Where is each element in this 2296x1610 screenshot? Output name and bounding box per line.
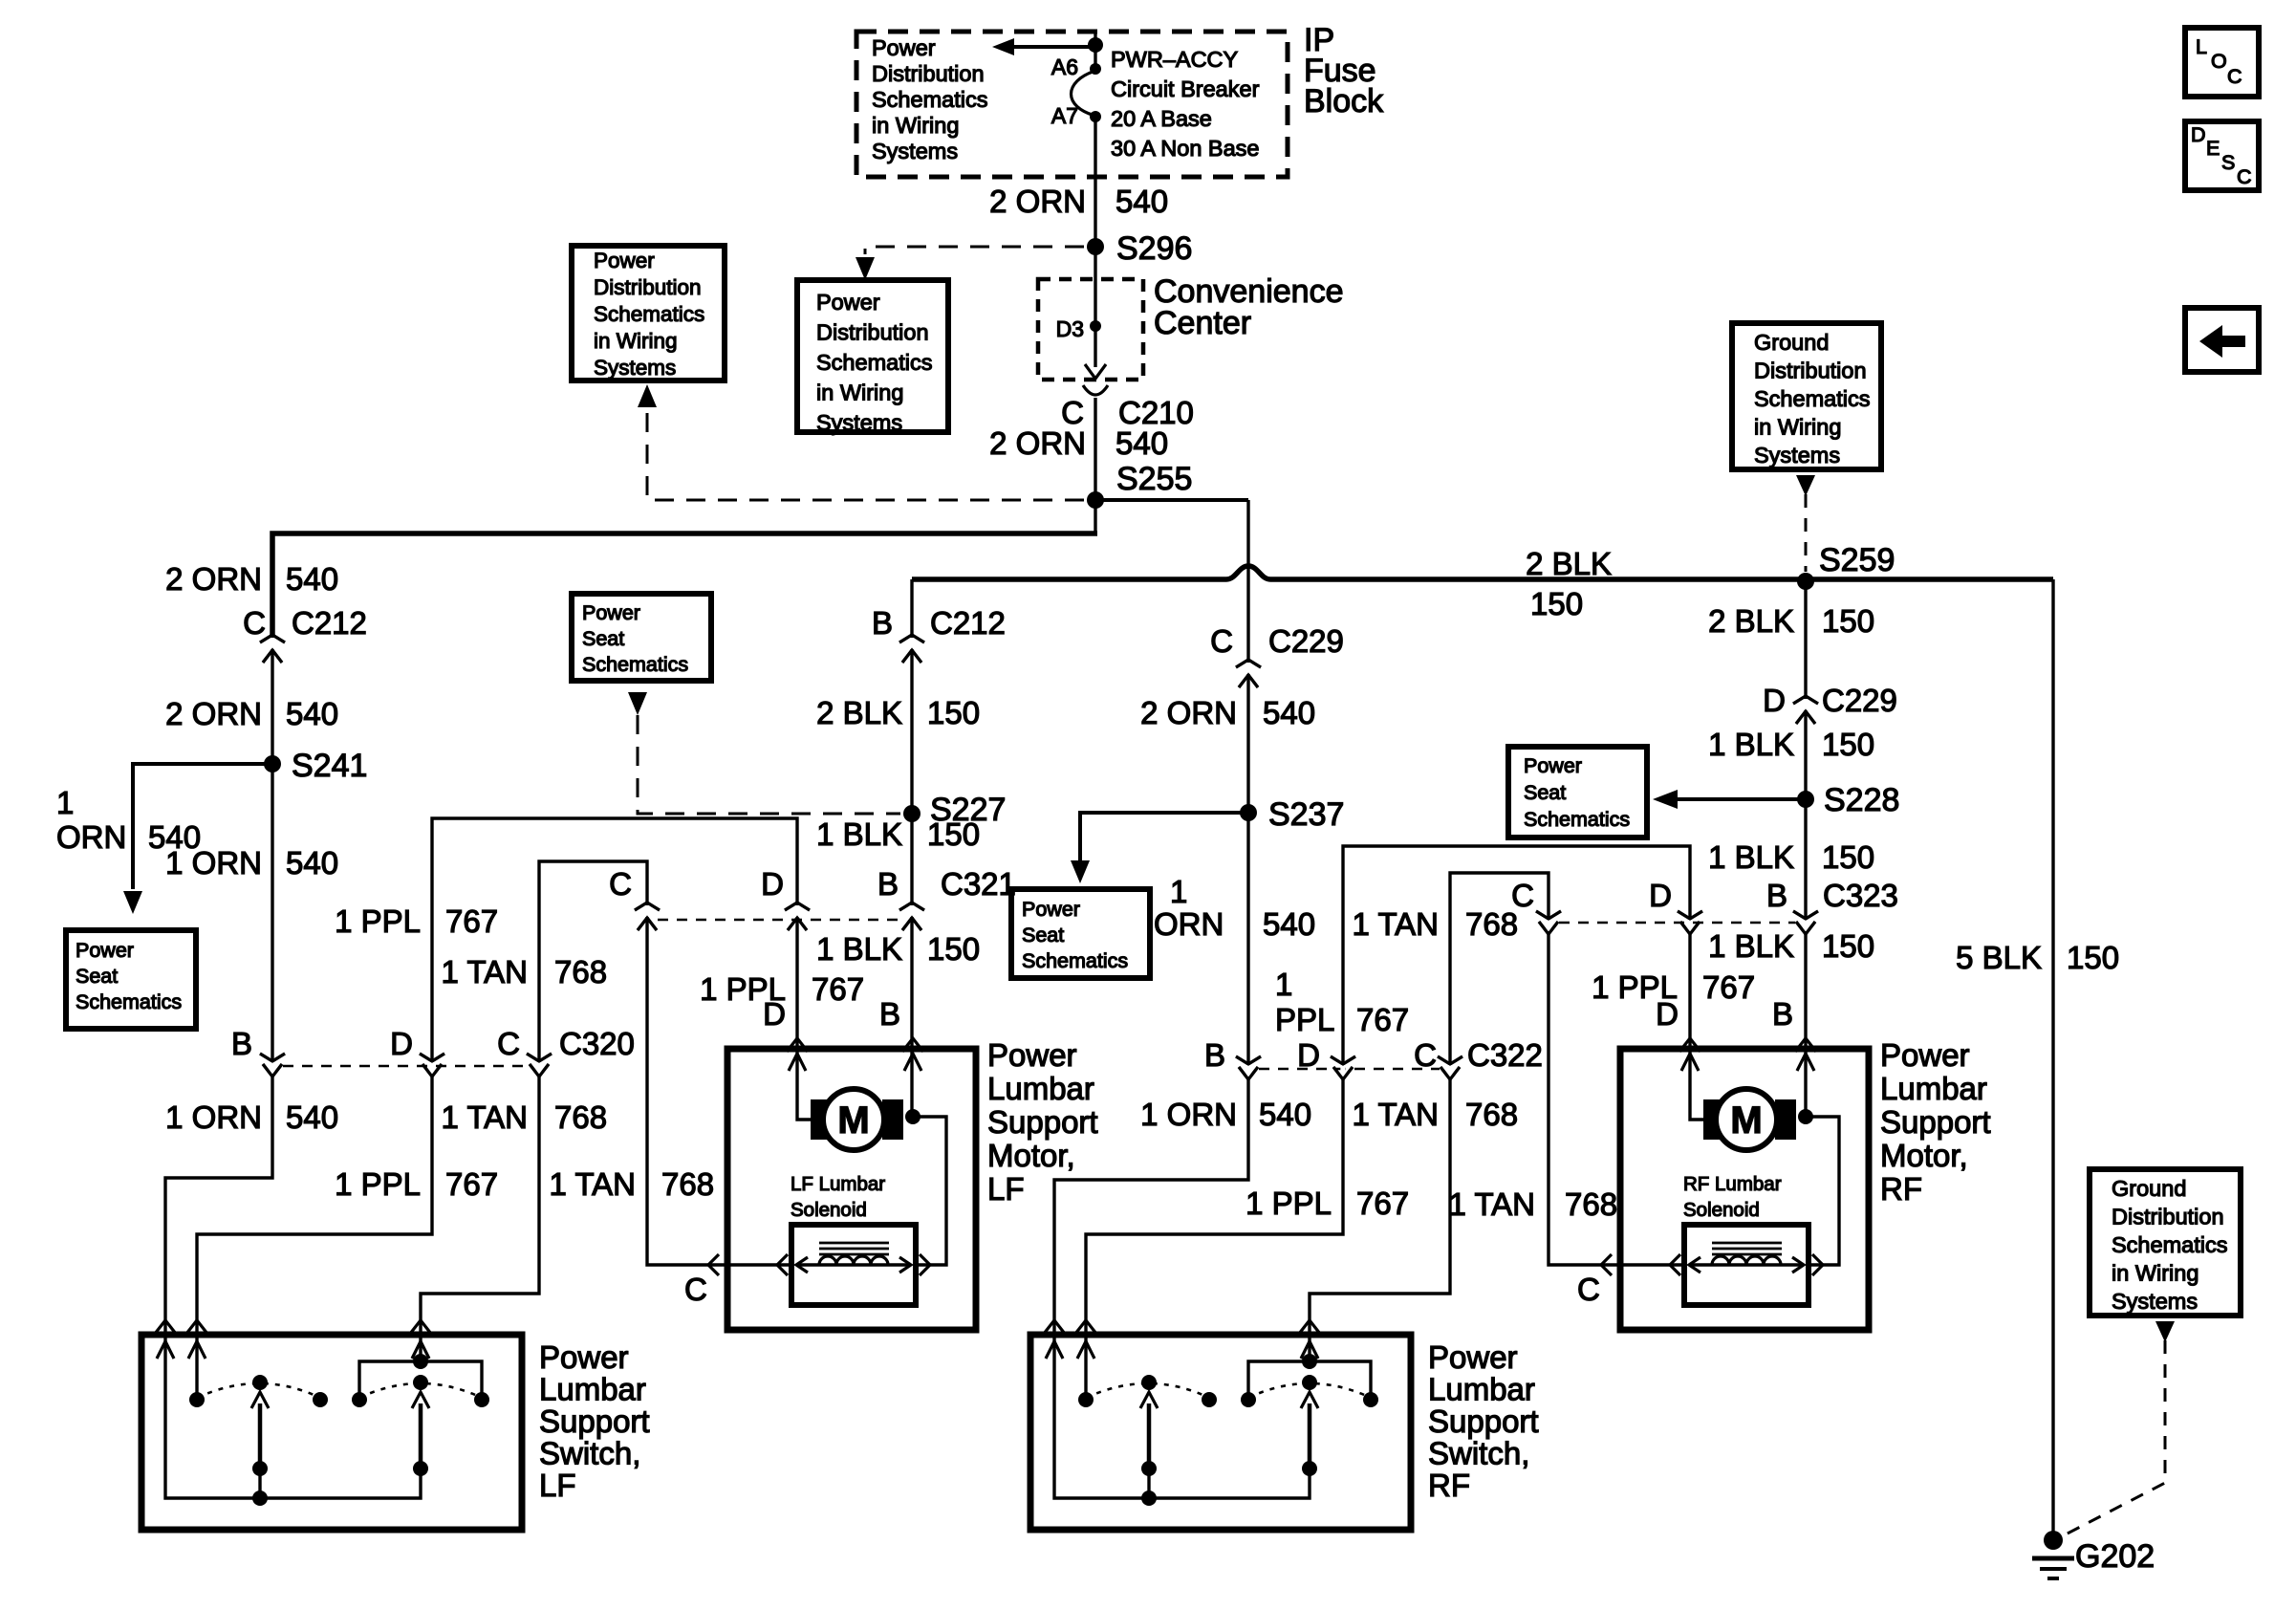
ref box: Power Seat Schematics (left) xyxy=(66,930,196,1029)
svg-text:Schematics: Schematics xyxy=(1754,386,1870,411)
svg-text:767: 767 xyxy=(445,1166,498,1202)
svg-text:767: 767 xyxy=(445,903,498,939)
ref box: Power Seat Schematics (RF) xyxy=(1508,747,1647,838)
LF switch left actuator arrow xyxy=(258,1403,263,1469)
wire: C320-C to LF switch pin xyxy=(421,1077,539,1333)
arrow down into power seat schematics box (left) xyxy=(123,891,142,914)
svg-text:S259: S259 xyxy=(1819,542,1895,578)
arrow into power distribution box (mid) xyxy=(856,257,875,280)
svg-text:Lumbar: Lumbar xyxy=(539,1372,646,1407)
svg-text:150: 150 xyxy=(1822,928,1874,964)
svg-text:Motor,: Motor, xyxy=(1880,1138,1968,1173)
svg-text:Circuit Breaker: Circuit Breaker xyxy=(1111,76,1260,101)
svg-text:1 ORN: 1 ORN xyxy=(165,1099,262,1135)
svg-text:150: 150 xyxy=(927,816,980,852)
wire: battery feed into breaker xyxy=(1094,32,1096,70)
svg-text:Schematics: Schematics xyxy=(2112,1232,2227,1257)
connector C212 pin C xyxy=(270,638,274,649)
svg-text:30 A Non Base: 30 A Non Base xyxy=(1111,136,1259,161)
svg-text:Center: Center xyxy=(1154,305,1251,341)
wire: RF motor B junction to solenoid xyxy=(1806,1117,1839,1265)
svg-text:Schematics: Schematics xyxy=(76,990,182,1013)
svg-text:Seat: Seat xyxy=(582,627,624,650)
svg-text:Power: Power xyxy=(1428,1339,1518,1375)
connector C322 pin D xyxy=(1340,1065,1345,1077)
svg-text:M: M xyxy=(1730,1099,1762,1142)
svg-text:RF: RF xyxy=(1880,1171,1922,1207)
arrow down from power seat schematics box xyxy=(628,692,647,715)
svg-text:C: C xyxy=(1577,1272,1600,1307)
wire: C320-B to LF switch pin xyxy=(165,1077,272,1333)
ref box: Power Distribution Schematics in Wiring Systems (mid) xyxy=(797,280,948,432)
svg-text:Lumbar: Lumbar xyxy=(1428,1372,1535,1407)
dashed ref: S255 to power distribution box (left) xyxy=(647,413,1084,500)
svg-text:Lumbar: Lumbar xyxy=(987,1071,1094,1106)
wire: ORN drop to C229 xyxy=(1246,500,1249,1078)
wire: S255 down to main ORN bus xyxy=(1094,500,1096,533)
svg-text:C: C xyxy=(2237,165,2252,188)
svg-text:Power: Power xyxy=(1022,898,1080,921)
svg-text:Power: Power xyxy=(582,601,640,624)
pin A7 xyxy=(1090,111,1101,122)
svg-text:C: C xyxy=(1414,1037,1437,1073)
svg-text:1 PPL: 1 PPL xyxy=(335,903,421,939)
svg-text:Schematics: Schematics xyxy=(816,350,932,375)
connector C212 pin B xyxy=(909,638,914,649)
svg-text:540: 540 xyxy=(1263,906,1315,942)
connector C323 pin B xyxy=(1803,920,1808,931)
RF switch right wiper dashed arc xyxy=(1248,1383,1371,1398)
svg-text:L: L xyxy=(2196,35,2207,58)
svg-text:Schematics: Schematics xyxy=(582,653,688,676)
svg-text:Schematics: Schematics xyxy=(594,302,704,326)
svg-text:150: 150 xyxy=(1822,603,1874,639)
svg-text:LF Lumbar: LF Lumbar xyxy=(791,1173,885,1195)
node S241 xyxy=(264,755,281,772)
svg-text:768: 768 xyxy=(1565,1186,1617,1222)
svg-text:in Wiring: in Wiring xyxy=(2112,1261,2199,1286)
svg-text:5 BLK: 5 BLK xyxy=(1956,940,2042,975)
connector C320 pin B xyxy=(270,1062,274,1074)
svg-text:1 BLK: 1 BLK xyxy=(816,931,902,967)
svg-text:S237: S237 xyxy=(1268,796,1344,833)
convenience center dashed outline xyxy=(1038,279,1143,380)
svg-text:RF Lumbar: RF Lumbar xyxy=(1683,1173,1782,1195)
wire: S237 branch to power seat schematics xyxy=(1080,813,1248,860)
RF switch right actuator arrow xyxy=(1308,1403,1312,1469)
svg-text:1 BLK: 1 BLK xyxy=(816,816,902,852)
RF motor M left brush xyxy=(1703,1099,1724,1140)
svg-text:Seat: Seat xyxy=(76,965,118,988)
wire: RF switch D leg xyxy=(1084,1335,1087,1400)
node S237 xyxy=(1240,804,1257,821)
svg-text:2 ORN: 2 ORN xyxy=(165,561,262,597)
svg-text:in Wiring: in Wiring xyxy=(594,329,678,353)
connector C323 pin C xyxy=(1546,920,1550,931)
svg-text:Solenoid: Solenoid xyxy=(1683,1199,1760,1221)
svg-text:C: C xyxy=(243,605,266,641)
svg-text:C: C xyxy=(1511,878,1534,913)
svg-text:Distribution: Distribution xyxy=(2112,1205,2224,1229)
svg-text:Motor,: Motor, xyxy=(987,1138,1075,1173)
connector: RF switch pin C entry xyxy=(1299,1320,1320,1334)
svg-text:S: S xyxy=(2221,151,2235,174)
svg-text:D: D xyxy=(761,866,784,902)
svg-text:Seat: Seat xyxy=(1524,781,1566,804)
arrow down from ground distribution box (bottom) xyxy=(2155,1321,2175,1342)
LF switch right wiper dashed arc xyxy=(359,1383,482,1398)
connector C321 pin D xyxy=(794,905,799,917)
svg-text:D: D xyxy=(1656,996,1679,1032)
connector C320 dashed row xyxy=(283,1065,530,1068)
ref box: Power Seat Schematics (S237) xyxy=(1011,889,1150,978)
ref box: Ground Distribution Schematics in Wiring Systems (top) xyxy=(1732,323,1881,469)
wire: RF 1 TAN 768 riser xyxy=(1450,873,1684,1265)
svg-text:D: D xyxy=(390,1026,413,1061)
wire: LF 1 PPL 767 riser xyxy=(432,818,797,1061)
svg-text:540: 540 xyxy=(286,561,338,597)
svg-text:2 ORN: 2 ORN xyxy=(989,425,1086,461)
wire: S241 branch to power seat schematics xyxy=(133,764,272,889)
svg-text:D: D xyxy=(1297,1037,1320,1073)
svg-text:1 BLK: 1 BLK xyxy=(1708,727,1794,762)
arrow: wire to power distribution schematics xyxy=(1011,45,1095,49)
svg-text:E: E xyxy=(2206,137,2220,160)
svg-text:B: B xyxy=(879,996,900,1032)
svg-text:767: 767 xyxy=(1356,1186,1409,1221)
wire: C320-D to LF switch pin xyxy=(197,1077,432,1333)
RF solenoid core plates xyxy=(1712,1243,1782,1254)
svg-text:S228: S228 xyxy=(1824,782,1899,818)
node: motor B junction xyxy=(905,1109,921,1124)
svg-text:767: 767 xyxy=(1356,1002,1409,1037)
wire: LF switch D leg xyxy=(195,1335,198,1400)
svg-text:C: C xyxy=(684,1272,707,1307)
svg-text:Block: Block xyxy=(1304,83,1384,120)
dashed ref: ground distribution to S259 xyxy=(1805,494,1808,572)
svg-text:Schematics: Schematics xyxy=(1524,808,1630,831)
svg-text:Systems: Systems xyxy=(816,410,902,435)
svg-text:150: 150 xyxy=(927,695,980,730)
arrow down from ground distribution box xyxy=(1796,475,1815,496)
wire: C322-C to RF switch pin xyxy=(1310,1079,1450,1333)
svg-text:C321: C321 xyxy=(941,866,1016,902)
svg-text:C: C xyxy=(2227,65,2242,88)
LF switch right actuator arrow xyxy=(419,1403,423,1469)
RF solenoid coil xyxy=(1712,1256,1781,1265)
IP fuse block dashed outline xyxy=(856,32,1288,177)
svg-text:C320: C320 xyxy=(559,1026,635,1061)
svg-text:1: 1 xyxy=(1170,874,1187,909)
svg-text:767: 767 xyxy=(812,971,864,1007)
icon box LOC xyxy=(2185,28,2259,97)
svg-text:Systems: Systems xyxy=(1754,443,1840,468)
svg-text:1 TAN: 1 TAN xyxy=(550,1166,636,1202)
connector: RF switch pin B entry xyxy=(1044,1320,1065,1334)
svg-text:C: C xyxy=(609,866,632,902)
ref box: Power Seat Schematics (S227) xyxy=(572,594,711,681)
svg-text:RF: RF xyxy=(1428,1468,1470,1503)
svg-text:Distribution: Distribution xyxy=(1754,359,1867,383)
pin D3 xyxy=(1090,320,1101,332)
svg-text:2 ORN: 2 ORN xyxy=(1140,695,1237,730)
ref box: Power Distribution Schematics in Wiring Systems (left) xyxy=(572,246,725,381)
svg-text:C: C xyxy=(1210,623,1233,659)
connector C321 pin B xyxy=(909,905,914,917)
motor M left brush xyxy=(811,1099,832,1140)
svg-text:A7: A7 xyxy=(1051,103,1078,128)
svg-text:Systems: Systems xyxy=(872,139,958,163)
svg-text:S241: S241 xyxy=(292,748,367,784)
svg-text:1 ORN: 1 ORN xyxy=(165,845,262,881)
connector C229 pin C xyxy=(1245,663,1250,674)
connector C323 pin D xyxy=(1687,920,1692,931)
svg-text:150: 150 xyxy=(1822,839,1874,875)
connector: LF switch pin B entry xyxy=(155,1320,176,1334)
svg-text:1 PPL: 1 PPL xyxy=(335,1166,421,1202)
svg-text:C229: C229 xyxy=(1822,683,1897,718)
wire: S255 right branch to C229 drop xyxy=(1095,498,1248,502)
ref box: Ground Distribution Schematics in Wiring Systems (bottom) xyxy=(2090,1169,2241,1316)
svg-text:Power: Power xyxy=(816,290,880,315)
connector C210 fork xyxy=(1083,385,1108,395)
ground G202 xyxy=(2044,1531,2063,1550)
connector C: RF solenoid inline xyxy=(1601,1254,1612,1275)
connector C321 dashed row xyxy=(658,919,900,922)
svg-text:1 ORN: 1 ORN xyxy=(1140,1097,1237,1132)
svg-text:2 ORN: 2 ORN xyxy=(989,184,1086,219)
wire: C210 to S255 xyxy=(1094,398,1096,500)
wire: RF 1 PPL 767 riser xyxy=(1343,846,1690,1064)
svg-text:540: 540 xyxy=(1116,425,1168,461)
dashed ref: S227 to power seat schematics xyxy=(638,715,900,814)
node S259 xyxy=(1797,573,1814,590)
svg-text:in Wiring: in Wiring xyxy=(816,381,903,405)
svg-text:D3: D3 xyxy=(1056,316,1084,341)
dashed ref: ground distribution to G202 xyxy=(2062,1340,2165,1536)
svg-text:Support: Support xyxy=(1880,1104,1991,1140)
svg-text:540: 540 xyxy=(1116,184,1168,219)
connector C322 dashed row xyxy=(1259,1068,1440,1071)
node S296 xyxy=(1087,238,1104,255)
svg-text:C229: C229 xyxy=(1268,623,1344,659)
svg-text:Support: Support xyxy=(987,1104,1098,1140)
wire: C322-B to RF switch pin xyxy=(1054,1079,1248,1333)
svg-text:768: 768 xyxy=(1465,906,1518,942)
svg-text:768: 768 xyxy=(554,1099,607,1135)
svg-text:1 BLK: 1 BLK xyxy=(1708,839,1794,875)
motor M circle xyxy=(823,1089,884,1150)
svg-text:ORN: ORN xyxy=(56,819,126,855)
wire: C321-D into LF motor xyxy=(797,918,811,1120)
wire: C323-D into RF motor xyxy=(1690,934,1703,1120)
svg-text:S296: S296 xyxy=(1116,230,1192,267)
svg-text:PPL: PPL xyxy=(1275,1002,1334,1037)
svg-text:540: 540 xyxy=(1263,695,1315,730)
svg-text:768: 768 xyxy=(554,954,607,990)
svg-text:150: 150 xyxy=(1822,727,1874,762)
LF power lumbar support motor box xyxy=(727,1049,976,1330)
svg-text:Switch,: Switch, xyxy=(1428,1436,1529,1471)
svg-text:Power: Power xyxy=(1524,754,1582,777)
svg-text:Schematics: Schematics xyxy=(1022,949,1128,972)
connector C321 pin C xyxy=(644,905,649,917)
svg-text:1 TAN: 1 TAN xyxy=(1353,906,1439,942)
RF lumbar solenoid box xyxy=(1684,1225,1809,1305)
svg-text:A6: A6 xyxy=(1051,54,1078,79)
RF switch left wiper dashed arc xyxy=(1086,1383,1209,1398)
svg-text:G202: G202 xyxy=(2075,1538,2155,1575)
svg-text:B: B xyxy=(1766,878,1787,913)
arrow down into power seat schematics (S237) xyxy=(1071,860,1090,883)
LF lumbar solenoid box xyxy=(791,1225,916,1305)
svg-text:D: D xyxy=(2191,123,2206,146)
svg-text:C: C xyxy=(497,1026,520,1061)
svg-text:Support: Support xyxy=(539,1403,650,1439)
svg-text:Systems: Systems xyxy=(594,356,676,380)
svg-text:1: 1 xyxy=(1275,967,1292,1002)
svg-text:Lumbar: Lumbar xyxy=(1880,1071,1987,1106)
svg-text:B: B xyxy=(1772,996,1793,1032)
svg-text:768: 768 xyxy=(1465,1097,1518,1132)
svg-text:ORN: ORN xyxy=(1154,906,1224,942)
wire: main ORN bus to left column xyxy=(272,533,1097,639)
svg-text:Power: Power xyxy=(594,249,655,272)
svg-text:Power: Power xyxy=(1880,1037,1970,1073)
connector C320 pin C xyxy=(536,1062,541,1074)
RF solenoid actuator double arrow xyxy=(1689,1263,1804,1266)
svg-text:B: B xyxy=(872,605,893,641)
svg-text:S255: S255 xyxy=(1116,461,1192,497)
svg-text:150: 150 xyxy=(2067,940,2119,975)
svg-text:PWR–ACCY: PWR–ACCY xyxy=(1111,47,1239,72)
svg-text:Power: Power xyxy=(987,1037,1077,1073)
LF power lumbar support switch box xyxy=(141,1335,522,1530)
LF switch left wiper dashed arc xyxy=(197,1383,320,1398)
svg-text:1 TAN: 1 TAN xyxy=(1449,1186,1535,1222)
solenoid coil xyxy=(819,1256,888,1265)
node: feed junction xyxy=(1088,37,1103,53)
svg-text:D: D xyxy=(1763,683,1786,718)
svg-text:Power: Power xyxy=(539,1339,629,1375)
RF power lumbar support motor box xyxy=(1620,1049,1869,1330)
svg-text:540: 540 xyxy=(286,696,338,731)
svg-text:Switch,: Switch, xyxy=(539,1436,640,1471)
arrow: wire exits convenience center xyxy=(1085,364,1106,379)
svg-text:C212: C212 xyxy=(930,605,1006,641)
svg-text:D: D xyxy=(1649,878,1672,913)
wire: breaker A7 down to S296 xyxy=(1094,117,1096,279)
wire: S228 arrow to power seat schematics xyxy=(1676,797,1806,801)
wire: LF 1 TAN 768 riser xyxy=(539,861,791,1265)
svg-text:2 BLK: 2 BLK xyxy=(816,695,902,730)
svg-text:1 TAN: 1 TAN xyxy=(1353,1097,1439,1132)
connector: LF switch pin C entry xyxy=(410,1320,431,1334)
wire: 5 BLK 150 to G202 xyxy=(2051,579,2054,1533)
svg-text:Seat: Seat xyxy=(1022,924,1064,946)
svg-text:Solenoid: Solenoid xyxy=(791,1199,867,1221)
svg-text:C212: C212 xyxy=(292,605,367,641)
connector C322 pin C xyxy=(1447,1065,1452,1077)
pin A6 xyxy=(1090,63,1101,75)
svg-text:540: 540 xyxy=(286,845,338,881)
LF switch right bracket xyxy=(359,1361,482,1400)
node S228 xyxy=(1797,791,1814,808)
svg-text:767: 767 xyxy=(1702,969,1755,1005)
svg-text:B: B xyxy=(1204,1037,1225,1073)
connector: RF switch pin D entry xyxy=(1075,1320,1096,1334)
solenoid actuator double arrow xyxy=(796,1263,911,1266)
wire: C322-D to RF switch pin xyxy=(1086,1079,1343,1333)
wire: LF switch B leg to rail xyxy=(165,1335,421,1498)
connector C323 dashed row xyxy=(1559,922,1795,925)
wire: C212-C down to S241 xyxy=(271,639,273,1063)
wire: RF switch C leg xyxy=(1308,1335,1310,1361)
svg-text:LF: LF xyxy=(987,1171,1025,1207)
RF switch left actuator arrow xyxy=(1147,1403,1152,1469)
connector: LF switch pin D entry xyxy=(186,1320,207,1334)
LF switch contact points xyxy=(189,1392,205,1407)
node S227 xyxy=(903,805,921,822)
svg-text:Distribution: Distribution xyxy=(872,61,985,86)
svg-text:in Wiring: in Wiring xyxy=(1754,415,1841,440)
RF power lumbar support switch box xyxy=(1030,1335,1411,1530)
svg-text:540: 540 xyxy=(1259,1097,1311,1132)
arrow up into left power distribution box xyxy=(638,384,657,407)
motor M right brush xyxy=(882,1099,903,1140)
main ground bus 2 BLK 150 xyxy=(912,566,2053,579)
svg-text:Ground: Ground xyxy=(2112,1176,2186,1201)
solenoid core plates xyxy=(819,1243,889,1254)
svg-text:1 PPL: 1 PPL xyxy=(1245,1186,1332,1221)
svg-text:150: 150 xyxy=(1530,586,1583,621)
svg-text:D: D xyxy=(763,996,786,1032)
wire: LF switch C leg xyxy=(419,1335,422,1361)
svg-text:150: 150 xyxy=(927,931,980,967)
wire: motor B junction to solenoid xyxy=(913,1117,946,1265)
RF switch right bracket xyxy=(1248,1361,1371,1400)
svg-text:O: O xyxy=(2211,50,2227,73)
svg-text:Power: Power xyxy=(76,939,134,962)
svg-text:B: B xyxy=(877,866,899,902)
svg-text:LF: LF xyxy=(539,1468,576,1503)
RF switch contact points xyxy=(1078,1392,1094,1407)
svg-text:Power: Power xyxy=(872,35,936,60)
icon box back arrow xyxy=(2185,308,2259,372)
svg-text:1 TAN: 1 TAN xyxy=(442,954,528,990)
circuit breaker PWR-ACCY 20A xyxy=(1072,71,1096,116)
svg-text:1: 1 xyxy=(56,785,74,820)
svg-text:2 ORN: 2 ORN xyxy=(165,696,262,731)
wire: ground drop S259 to RF motor xyxy=(1804,581,1807,1117)
connector C: LF solenoid inline xyxy=(708,1254,719,1275)
svg-text:768: 768 xyxy=(661,1166,714,1202)
svg-text:Support: Support xyxy=(1428,1403,1539,1439)
wire: RF switch B leg to rail xyxy=(1054,1335,1310,1498)
wire: S296 through convenience center xyxy=(1094,279,1096,367)
RF motor M circle xyxy=(1716,1089,1777,1150)
icon box DESC xyxy=(2185,121,2259,190)
wire: ground drop C212-B to LF motor xyxy=(910,579,913,1117)
svg-text:1 TAN: 1 TAN xyxy=(442,1099,528,1135)
svg-text:2 BLK: 2 BLK xyxy=(1708,603,1794,639)
connector C320 pin D xyxy=(429,1062,434,1074)
svg-text:Schematics: Schematics xyxy=(872,87,987,112)
svg-text:2 BLK: 2 BLK xyxy=(1526,546,1612,581)
connector C322 pin B xyxy=(1245,1065,1250,1077)
svg-text:C322: C322 xyxy=(1467,1037,1543,1073)
svg-text:in Wiring: in Wiring xyxy=(872,113,959,138)
